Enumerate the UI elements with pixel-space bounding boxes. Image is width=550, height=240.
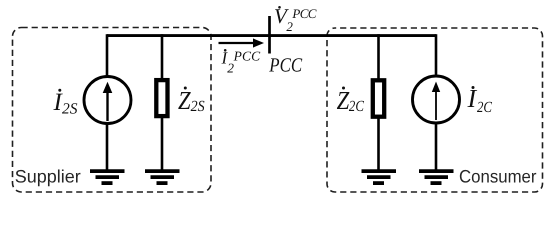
wire: I2S bottom stub [106,123,109,170]
wire: I2C bottom stub [435,122,438,170]
label Z2C [337,86,365,115]
svg-text:Supplier: Supplier [15,167,81,187]
svg-text:PCC: PCC [291,6,316,21]
current source I2C [413,76,460,123]
wire: Z2S top stub [161,34,164,80]
wire: I2S top stub [106,34,109,77]
svg-text:2: 2 [286,19,293,34]
supplier dashed box [13,28,212,193]
arrow: PCC current direction [219,38,265,47]
ground under Z2S [145,171,180,183]
svg-text:Z: Z [178,86,191,115]
label I2C [467,84,493,116]
svg-text:2S: 2S [191,98,205,115]
wire: Z2C bottom stub [377,117,380,170]
label Z2S [178,86,205,115]
node PCC tick [268,16,271,54]
ground under I2C [419,171,454,183]
wire: Z2S bottom stub [161,116,164,170]
consumer dashed box [327,28,543,192]
current source I2S [84,77,131,124]
svg-text:2C: 2C [349,98,365,115]
ground under Z2C [362,171,397,183]
impedance Z2C [373,80,384,116]
svg-text:PCC: PCC [268,55,302,77]
wire: top bus from I2S to I2C through PCC [107,34,436,37]
label I2S [53,89,78,118]
ground under I2S [90,171,125,183]
svg-text:Z: Z [337,86,350,115]
label I2^PCC [221,48,262,75]
svg-text:PCC: PCC [233,48,261,63]
svg-text:2C: 2C [477,99,493,116]
svg-text:Consumer: Consumer [459,167,537,187]
wire: Z2C top stub [377,34,380,80]
svg-text:I: I [467,84,478,113]
impedance Z2S [156,80,167,116]
label V2^PCC [274,4,317,34]
wire: I2C top stub [435,34,438,76]
svg-text:2S: 2S [62,101,78,118]
